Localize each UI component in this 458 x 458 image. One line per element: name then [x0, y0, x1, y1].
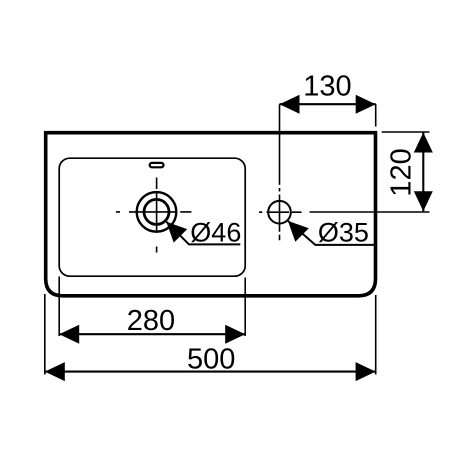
dimension 280 right arrow: [225, 325, 245, 344]
overflow slot: [150, 163, 164, 167]
dimension 120 top extension line: [382, 131, 430, 133]
dimension 280 left arrow: [59, 325, 79, 344]
dimension 500 right arrow: [356, 362, 376, 381]
drain outer circle: [137, 192, 177, 232]
dimension 500 left extension line: [44, 294, 46, 375]
svg-text:500: 500: [187, 344, 235, 376]
basin outer outline: [46, 133, 376, 296]
dimension 130 left arrow: [280, 95, 300, 114]
dimension 280 line: [59, 333, 245, 335]
svg-text:Ø35: Ø35: [318, 217, 369, 247]
dimension 130 right arrow: [356, 95, 376, 114]
dimension 120 bottom arrow: [414, 191, 433, 211]
basin inner bowl outline: [59, 158, 245, 276]
tap hole centerline horizontal: [259, 211, 302, 213]
leader line Ø46: [166, 222, 240, 245]
tap hole circle Ø35: [268, 201, 291, 224]
leader arrow Ø46: [166, 222, 187, 243]
svg-text:Ø46: Ø46: [190, 217, 241, 247]
dimension 120 top arrow: [414, 133, 433, 153]
dimension 120 line: [422, 133, 424, 212]
svg-text:130: 130: [303, 71, 351, 103]
dimension 500 right extension line: [375, 295, 377, 375]
dimension 130 line: [280, 103, 376, 105]
drain centerline horizontal: [116, 211, 191, 213]
leader line Ø35: [288, 221, 374, 245]
tap hole centerline vertical with 130 extension: [279, 104, 281, 240]
svg-text:120: 120: [385, 148, 417, 196]
dimension 130 right extension line: [375, 104, 377, 126]
dimension 120 bottom extension line: [310, 211, 430, 213]
drain inner circle Ø46: [144, 199, 169, 224]
dimension 500 left arrow: [45, 362, 65, 381]
dimension 280 left extension line: [58, 277, 60, 337]
leader arrow Ø35: [288, 221, 309, 242]
dimension 280 right extension line: [244, 278, 246, 337]
svg-text:280: 280: [127, 305, 175, 337]
drain centerline vertical: [156, 178, 158, 253]
dimension 500 line: [45, 371, 376, 373]
